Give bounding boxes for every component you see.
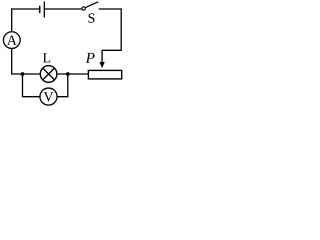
wire: lamp to bottom-left corner and up left side: [12, 48, 41, 74]
wire: switch to top-right corner, down right side, over to wiper: [99, 9, 122, 63]
switch S pivot circle: [82, 7, 85, 10]
wire: battery to switch: [45, 8, 82, 10]
junction dot (right, node to voltmeter): [66, 72, 70, 76]
switch S lever (open): [85, 2, 98, 8]
voltmeter V: [40, 88, 57, 105]
wire: rheostat left terminal to lamp: [57, 73, 88, 75]
rheostat wiper arrowhead: [99, 62, 104, 68]
junction dot (left, node to voltmeter): [21, 72, 25, 76]
ammeter A: [3, 32, 20, 49]
battery B1 short plate (left): [39, 6, 41, 13]
wire: voltmeter branch left (from left junction down and right): [23, 74, 41, 97]
label S: [89, 13, 95, 22]
label P: [86, 53, 95, 63]
rheostat P body: [88, 70, 121, 79]
lamp L (circle with inscribed X): [40, 66, 57, 83]
wire: voltmeter branch right (from voltmeter up to right junction): [57, 74, 68, 97]
battery B1 long plate (right): [43, 2, 45, 18]
label L: [43, 53, 50, 62]
wire: top-left corner (left vertical upper + top run to battery): [12, 9, 40, 32]
